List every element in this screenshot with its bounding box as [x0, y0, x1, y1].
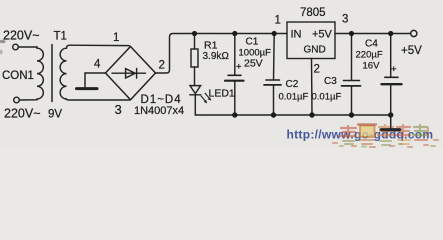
svg-text:LED1: LED1	[209, 88, 235, 100]
watermark colorful logo glyph 4	[396, 125, 410, 137]
wire secondary top lead to bridge pin1	[67, 45, 131, 48]
svg-text:25V: 25V	[244, 58, 263, 70]
wire R1 to LED1	[194, 67, 196, 86]
svg-text:1: 1	[113, 32, 119, 44]
svg-text:CON1: CON1	[2, 70, 34, 82]
node C4 bottom	[388, 112, 393, 117]
watermark colorful logo glyph 5	[413, 125, 427, 137]
bridge rectifier D1~D4 diamond	[106, 47, 156, 100]
svg-text:T1: T1	[54, 31, 67, 43]
watermark speckles	[333, 140, 438, 147]
svg-text:2: 2	[159, 60, 165, 72]
wire 7805 GND pin to ground rail	[311, 59, 314, 116]
node C1 bottom	[232, 112, 237, 117]
terminal lower 220V	[14, 97, 20, 103]
svg-text:9V: 9V	[48, 109, 62, 121]
ground rail (bottom)	[195, 114, 390, 116]
wire bridge pin2 riser to +rail	[156, 34, 288, 74]
wire bridge pin4 to ground	[85, 73, 106, 87]
watermark colorful logo glyph 2	[360, 126, 375, 138]
ground bar (output common)	[381, 128, 400, 131]
ground stem and bar redrawn over watermark	[381, 115, 400, 130]
svg-text:C3: C3	[324, 76, 337, 87]
wire C4 branch	[390, 34, 392, 116]
transformer T1 secondary winding	[60, 48, 66, 99]
wire C1 branch	[234, 34, 236, 116]
capacitor C2 plates	[266, 79, 280, 81]
node C4 top	[388, 31, 393, 36]
svg-text:0.01µF: 0.01µF	[312, 92, 342, 103]
wire top rail out of 7805 to +5V terminal	[335, 33, 410, 35]
wire secondary bottom lead to bridge pin3	[67, 98, 130, 101]
wire C2 branch	[273, 34, 276, 116]
svg-text:16V: 16V	[363, 61, 381, 72]
svg-text:R1: R1	[204, 40, 218, 52]
wire R1 branch down	[194, 34, 196, 50]
svg-text:GND: GND	[304, 45, 326, 56]
watermark colorful logo glyph 3	[378, 125, 393, 137]
node GND pin bottom	[309, 112, 314, 117]
wire primary bottom lead	[19, 99, 37, 101]
node R1 top	[192, 31, 197, 36]
diode symbol inside bridge	[112, 69, 146, 79]
svg-text:220V~: 220V~	[4, 107, 41, 121]
svg-text:220µF: 220µF	[356, 50, 383, 61]
svg-text:+5V: +5V	[401, 45, 422, 57]
transformer T1 primary winding	[37, 47, 43, 100]
svg-text:7805: 7805	[300, 7, 326, 19]
wire C3 branch	[351, 34, 353, 116]
schematic text labels	[2, 7, 422, 121]
svg-text:C1: C1	[246, 37, 259, 48]
svg-text:220V~: 220V~	[3, 29, 40, 43]
node 1 (7805 IN)	[272, 31, 277, 36]
junction dots	[192, 31, 394, 118]
svg-text:IN: IN	[291, 29, 302, 41]
LED1 triangle	[190, 86, 201, 94]
watermark colorful logo glyph 1	[333, 125, 438, 148]
terminal +5V output	[411, 30, 417, 36]
diode triangle	[126, 69, 136, 78]
svg-text:+5V: +5V	[312, 29, 333, 41]
ground bar (bridge negative)	[77, 87, 98, 90]
node C3 top	[349, 31, 354, 36]
capacitor C1 plates	[228, 74, 241, 76]
transformer core	[51, 45, 53, 102]
svg-text:4: 4	[94, 59, 101, 71]
svg-text:3: 3	[342, 14, 348, 26]
resistor R1 body	[191, 49, 198, 67]
wire C4 node to ground symbol	[390, 115, 392, 128]
LED1 emission arrows	[201, 93, 212, 104]
svg-text:+: +	[236, 62, 242, 73]
capacitor C3 plates	[344, 80, 360, 82]
node C1 top	[232, 31, 237, 36]
terminal upper 220V	[13, 44, 19, 50]
node C2 bottom	[271, 112, 276, 117]
svg-text:C4: C4	[365, 39, 378, 50]
node C3 bottom	[349, 112, 354, 117]
LED1 cathode bar	[190, 94, 201, 96]
svg-text:+: +	[391, 64, 397, 75]
svg-text:3: 3	[115, 102, 122, 117]
capacitor C4 plates	[385, 76, 398, 78]
svg-text:0.01µF: 0.01µF	[279, 92, 309, 103]
background paper	[0, 0, 443, 148]
svg-text:C2: C2	[286, 79, 299, 90]
scan smudge left edge	[0, 40, 6, 44]
wire LED1 to ground rail	[194, 95, 196, 115]
svg-text:1N4007x4: 1N4007x4	[134, 105, 184, 117]
svg-text:1: 1	[275, 15, 281, 27]
regulator 7805 box	[287, 22, 335, 59]
wire primary top lead	[18, 46, 37, 48]
svg-text:2: 2	[314, 64, 320, 76]
svg-text:3.9kΩ: 3.9kΩ	[203, 51, 230, 62]
